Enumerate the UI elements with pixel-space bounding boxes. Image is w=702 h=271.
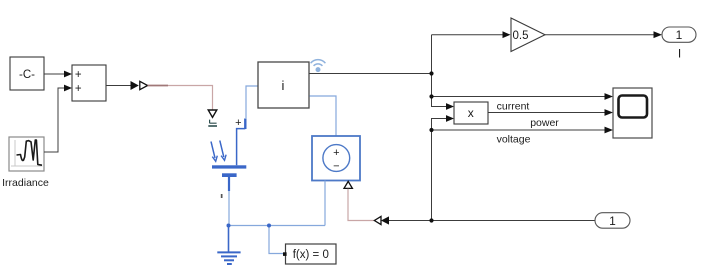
- label solar cell	[221, 194, 223, 198]
wire solar cell + to current sensor	[246, 86, 258, 119]
solar cell terminal stubs and internal link	[229, 119, 245, 192]
inport oval 1	[595, 213, 630, 229]
junction dot bus bottom	[429, 218, 433, 222]
svg-text:+: +	[75, 69, 82, 81]
svg-text:I: I	[678, 47, 681, 61]
gain block 0.5	[511, 18, 545, 52]
junction dot bus i-line	[429, 71, 433, 75]
svg-text:1: 1	[676, 28, 683, 42]
junction dot blue 2	[267, 224, 271, 228]
label current	[497, 100, 530, 112]
bottom electrical wire	[229, 225, 326, 227]
svg-text:f(x) = 0: f(x) = 0	[293, 249, 329, 261]
current sensor block i	[258, 62, 309, 108]
solar cell light ray arrows	[211, 141, 226, 162]
svg-text:+: +	[75, 83, 82, 95]
converter U1 Simulink-PS (filled + open triangle)	[131, 81, 148, 90]
ground	[217, 226, 240, 265]
wire solar cell - terminal down	[228, 191, 230, 226]
svg-text:1: 1	[609, 214, 616, 228]
junction dot bus voltage	[429, 128, 433, 132]
PS input port triangle (solar cell Ir port)	[208, 110, 217, 126]
svg-text:current: current	[497, 100, 530, 112]
wire voltage to scope	[432, 127, 614, 134]
controlled current source block	[312, 136, 360, 181]
PS control port triangle of source	[344, 181, 352, 188]
svg-text:power: power	[530, 117, 559, 129]
wire to solver config	[269, 226, 283, 254]
outport oval 1	[662, 27, 696, 42]
solar cell plates	[212, 165, 246, 177]
wire voltage hook to product	[432, 115, 455, 220]
solver configuration block f(x)=0	[283, 244, 336, 264]
PS line to solar cell irradiance port	[148, 86, 213, 110]
svg-text:0.5: 0.5	[513, 30, 529, 42]
label I	[678, 47, 681, 61]
svg-text:voltage: voltage	[497, 133, 531, 145]
svg-text:-C-: -C-	[19, 69, 35, 81]
constant block -C-	[10, 57, 44, 90]
wire sum to converter	[106, 85, 131, 87]
label power	[530, 117, 559, 129]
label Irradiance	[2, 177, 49, 189]
sum block Add	[72, 65, 106, 101]
wire current to scope	[432, 93, 614, 100]
wire constant to sum	[44, 71, 72, 78]
svg-text:+: +	[235, 117, 241, 129]
svg-text:+: +	[333, 147, 339, 159]
wire sensor right port to current source top	[310, 96, 337, 136]
svg-text:−: −	[333, 160, 339, 172]
wire inport to converter2	[389, 220, 595, 222]
+ label solar cell	[235, 117, 241, 129]
wire up to source bottom port	[324, 181, 326, 226]
junction dot blue 1	[227, 224, 231, 228]
wire product to scope	[488, 109, 613, 116]
junction dot bus current	[429, 94, 433, 98]
svg-text:x: x	[468, 106, 474, 120]
source block Irradiance	[9, 137, 44, 171]
svg-text:i: i	[282, 78, 285, 93]
wire bus to gain	[432, 31, 511, 38]
wire Irradiance to sum	[44, 85, 72, 152]
label voltage	[497, 133, 531, 145]
converter U2 PS-side open + Simulink filled arrow	[374, 216, 389, 224]
PS line from converter2 to source control port	[348, 189, 375, 221]
svg-text:Irradiance: Irradiance	[2, 177, 49, 189]
wire sensor measurement output to bus	[309, 73, 432, 75]
wifi logging icon	[311, 60, 326, 72]
signal bus vertical (current net)	[432, 35, 455, 110]
scope block	[613, 88, 652, 138]
wire gain to outport	[545, 31, 662, 38]
product block x	[454, 102, 488, 124]
